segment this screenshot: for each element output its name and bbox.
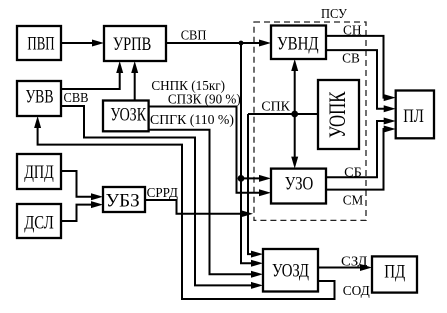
svg-text:ПВП: ПВП	[27, 34, 54, 55]
svg-text:СПЗК (90 %): СПЗК (90 %)	[168, 91, 241, 106]
block ДСЛ	[17, 204, 61, 238]
block УОЗД	[263, 249, 318, 292]
block ДПД	[17, 154, 61, 189]
block УОЗК	[103, 101, 149, 132]
svg-text:СЗД: СЗД	[341, 254, 367, 269]
block ПЛ	[396, 91, 434, 139]
block УЗО	[271, 169, 326, 204]
svg-text:УОЗД: УОЗД	[272, 261, 309, 282]
dashed subsystem boundary ПСУ	[254, 22, 366, 220]
svg-text:СПГК (110 %): СПГК (110 %)	[150, 112, 234, 127]
svg-text:ПД: ПД	[384, 262, 405, 283]
svg-text:СМ: СМ	[343, 193, 364, 208]
svg-text:СВП: СВП	[181, 29, 207, 44]
wire СПГК: УОЗК to УОЗД	[149, 130, 263, 278]
wire СПЗК: УОЗК to УЗО	[149, 107, 271, 197]
wire СМ: УЗО to ПЛ	[326, 126, 396, 190]
wire СВП tap down to УЗО and УОЗД	[241, 43, 271, 267]
wire СВВ: УВВ to УОЗД	[61, 106, 263, 289]
wire ДПД to УБЗ	[61, 171, 103, 200]
svg-text:СН: СН	[343, 24, 362, 39]
svg-text:СРРД: СРРД	[147, 185, 178, 200]
wire СН: УВНД to ПЛ	[326, 36, 396, 101]
wire УОЗК to УРПВ	[131, 61, 138, 101]
wire УВВ to УРПВ	[61, 61, 123, 89]
svg-text:ПЛ: ПЛ	[403, 106, 424, 127]
wire ПВП to УРПВ	[61, 40, 104, 47]
block ПД	[372, 256, 417, 292]
wire СПК: УОПК to УВНД, УЗО, УОЗД	[248, 59, 318, 258]
svg-text:УОПК: УОПК	[325, 91, 350, 138]
svg-text:ДСЛ: ДСЛ	[24, 212, 54, 233]
svg-text:УВВ: УВВ	[25, 86, 53, 107]
block УВВ	[17, 81, 61, 116]
wire СЗД: УОЗД to ПД	[318, 264, 372, 271]
svg-text:ДПД: ДПД	[24, 162, 54, 183]
node dot on СВП tap	[238, 175, 245, 182]
svg-text:СВВ: СВВ	[64, 90, 89, 105]
svg-text:УВНД: УВНД	[277, 34, 319, 55]
block УБЗ	[103, 187, 145, 212]
svg-text:СБ: СБ	[344, 166, 362, 181]
block УРПВ	[104, 26, 166, 61]
svg-text:УРПВ: УРПВ	[113, 34, 151, 55]
node dot СПК	[291, 111, 298, 118]
svg-text:СПК: СПК	[261, 100, 290, 115]
svg-text:СВ: СВ	[342, 51, 360, 66]
wire СВ: УВНД to ПЛ	[326, 50, 396, 112]
svg-text:СОД: СОД	[343, 283, 370, 298]
block ПВП	[17, 26, 61, 60]
wire ДСЛ to УБЗ	[61, 201, 103, 221]
wire СВП: УРПВ to УВНД	[166, 40, 271, 47]
wire СРРД: УБЗ to ПСУ border	[145, 200, 253, 217]
svg-text:УОЗК: УОЗК	[110, 105, 146, 126]
wire СБ: УЗО to ПЛ	[326, 118, 396, 178]
block УВНД	[271, 26, 326, 60]
svg-text:УЗО: УЗО	[285, 173, 314, 194]
svg-text:УБЗ: УБЗ	[106, 191, 140, 212]
svg-text:ПСУ: ПСУ	[321, 6, 347, 21]
junction on СВП line	[239, 41, 244, 46]
wire СОД feedback: УОЗД to УВВ	[34, 116, 334, 299]
block УОПК (rotated label)	[318, 80, 359, 149]
